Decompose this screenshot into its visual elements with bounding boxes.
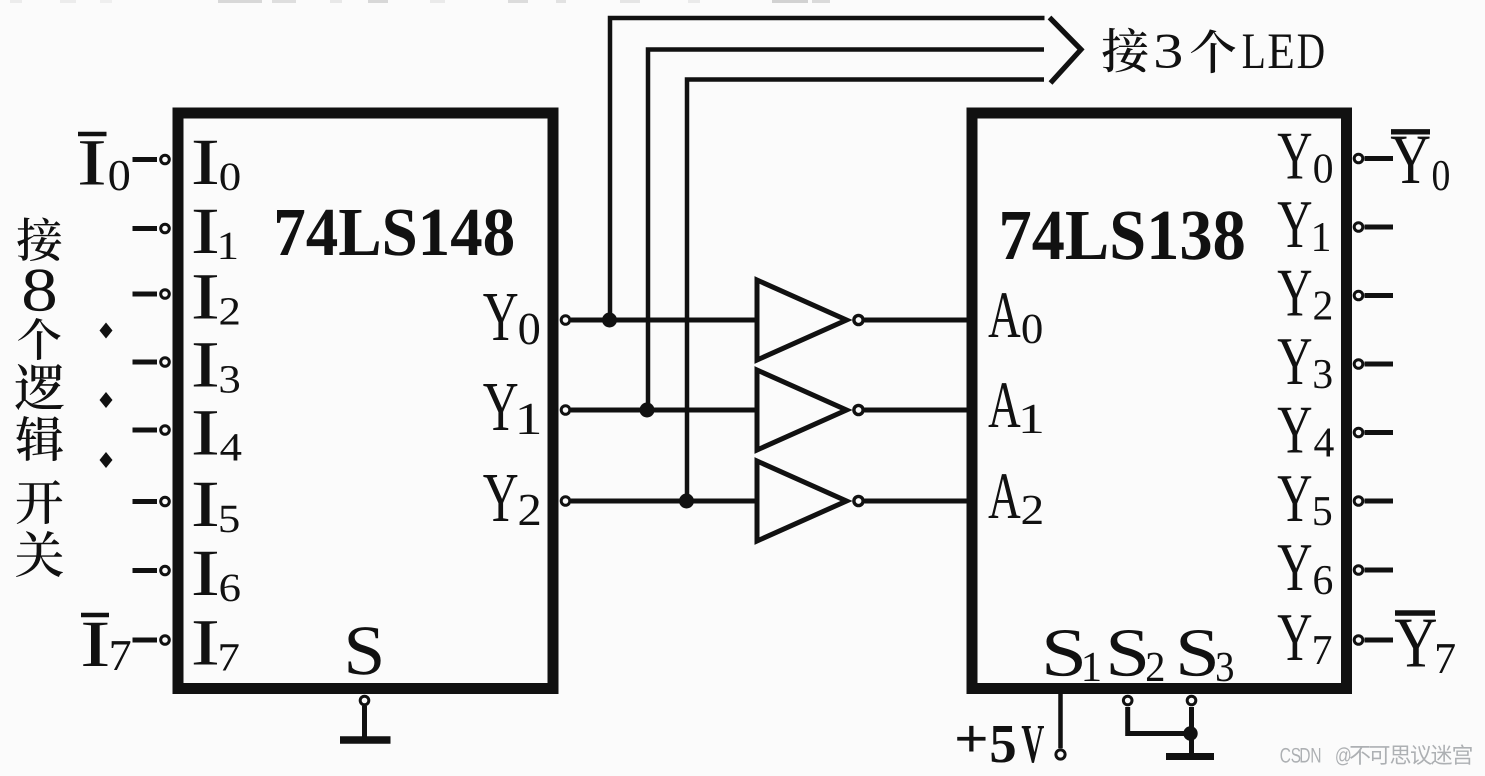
caption: connect 8 logic switches (vertical) <box>17 217 61 261</box>
IC U5 74LS138 box <box>972 113 1347 689</box>
pin I3 input wire <box>133 360 158 365</box>
junction S2/S3 <box>1183 726 1197 740</box>
pin S circle <box>360 696 369 705</box>
junction node Y0 <box>602 313 617 328</box>
label S enable <box>348 627 380 675</box>
pin Y0 circle <box>561 316 570 325</box>
wire Y1 to inverter <box>571 408 757 413</box>
inverter U3 bubble <box>854 405 863 414</box>
arrow to LEDs <box>1050 18 1082 84</box>
label I5 inside chip <box>194 483 217 526</box>
label Y5 (74LS138 output) <box>1278 476 1312 521</box>
inverter U3 triangle <box>757 370 847 450</box>
ellipsis diamond <box>100 452 113 468</box>
label Y1 (74LS138 output) <box>1278 202 1312 247</box>
label A2 input <box>989 474 1021 518</box>
pin Y2 circle <box>561 497 570 506</box>
pin Y3 circle + stub <box>1354 360 1363 369</box>
pin S3 circle <box>1187 696 1196 705</box>
pin I7 input wire <box>133 638 158 643</box>
terminal circle +5V <box>1056 750 1065 759</box>
pin I1 input wire <box>133 226 158 231</box>
pin Y7 circle + stub <box>1354 636 1363 645</box>
label Y3 (74LS138 output) <box>1278 339 1312 384</box>
label I4 inside chip <box>194 411 217 454</box>
watermark CSDN <box>1280 748 1290 763</box>
label I2 inside chip <box>194 275 217 318</box>
label I0 inside chip <box>194 141 217 184</box>
node Ibar0 label <box>80 141 104 184</box>
label I6 inside chip <box>194 552 217 595</box>
wire net Y1 branch to LED <box>648 50 1044 411</box>
inverter U2 triangle <box>757 280 847 360</box>
label Y4 (74LS138 output) <box>1278 408 1312 453</box>
pin Y1 circle <box>561 406 570 415</box>
inverter U4 bubble <box>854 496 863 505</box>
label A0 input <box>989 293 1021 337</box>
wire inverter U2 output to A0 <box>865 318 968 323</box>
node Ibar7 label <box>83 623 107 666</box>
label 74LS138 <box>1002 212 1030 259</box>
label Y2 (74LS148 output) <box>483 475 517 521</box>
ellipsis diamond <box>100 392 113 408</box>
label 74LS148 <box>277 210 304 255</box>
label Y7 (74LS138 output) <box>1278 615 1312 660</box>
pin I2 input wire <box>133 292 158 297</box>
pin Y0 circle + stub <box>1354 154 1363 163</box>
inverter U4 triangle <box>757 461 847 541</box>
label Y1 (74LS148 output) <box>483 384 517 430</box>
wire S3 down <box>1189 707 1194 753</box>
caption: connect 3 LEDs <box>1102 28 1147 73</box>
wire inverter U4 output to A2 <box>865 499 968 504</box>
inverter U2 bubble <box>854 315 863 324</box>
pin Y1 circle + stub <box>1354 223 1363 232</box>
pin Y4 circle + stub <box>1354 428 1363 437</box>
pin I4 input wire <box>133 428 158 433</box>
junction node Y1 <box>640 403 655 418</box>
wire net Y2 branch to LED <box>687 80 1044 502</box>
wire S2 down <box>1128 707 1192 734</box>
wire Y2 to inverter <box>571 499 757 504</box>
label I1 inside chip <box>194 210 217 253</box>
node Ybar7 label <box>1395 620 1436 667</box>
junction node Y2 <box>679 494 694 509</box>
wire net Y0 branch to LED <box>610 18 1045 320</box>
pin Y2 circle + stub <box>1354 291 1363 300</box>
wire S to ground <box>362 706 367 738</box>
pin I6 input wire <box>133 568 158 573</box>
cropped text remnants top edge <box>10 0 22 3</box>
label Y2 (74LS138 output) <box>1278 271 1312 316</box>
wire inverter U3 output to A1 <box>865 408 968 413</box>
ground symbol U1 <box>340 736 391 744</box>
pin Y6 circle + stub <box>1354 566 1363 575</box>
IC U1 74LS148 box <box>178 113 553 689</box>
label Y6 (74LS138 output) <box>1278 545 1312 590</box>
label +5V <box>957 726 985 752</box>
pin S2 circle <box>1123 696 1132 705</box>
ground symbol U5 <box>1166 753 1214 760</box>
labels S1 S2 S3 <box>1046 630 1081 676</box>
pin Y5 circle + stub <box>1354 497 1363 506</box>
pin I5 input wire <box>133 499 158 504</box>
wire S1 to +5V <box>1058 694 1063 748</box>
label I7 inside chip <box>194 621 217 664</box>
ellipsis diamond <box>100 323 113 339</box>
wire Y0 to inverter <box>571 318 757 323</box>
label Y0 (74LS148 output) <box>483 294 517 340</box>
label A1 input <box>989 383 1021 427</box>
pin I0 input wire <box>133 157 158 162</box>
label Y0 (74LS138 output) <box>1278 134 1312 179</box>
node Ybar0 label <box>1391 137 1430 183</box>
label I3 inside chip <box>194 343 217 386</box>
